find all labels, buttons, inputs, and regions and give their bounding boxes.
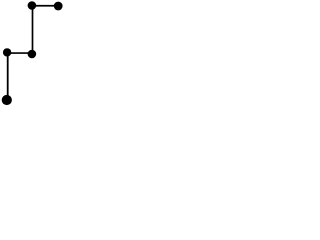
wire: [32, 5, 58, 7]
wire: [7, 52, 32, 54]
node C: [28, 50, 37, 59]
node A: [28, 1, 37, 10]
node E: [2, 95, 12, 105]
wire: [7, 52, 9, 100]
node D: [3, 48, 11, 56]
node B: [54, 2, 63, 11]
wire: [32, 6, 34, 55]
